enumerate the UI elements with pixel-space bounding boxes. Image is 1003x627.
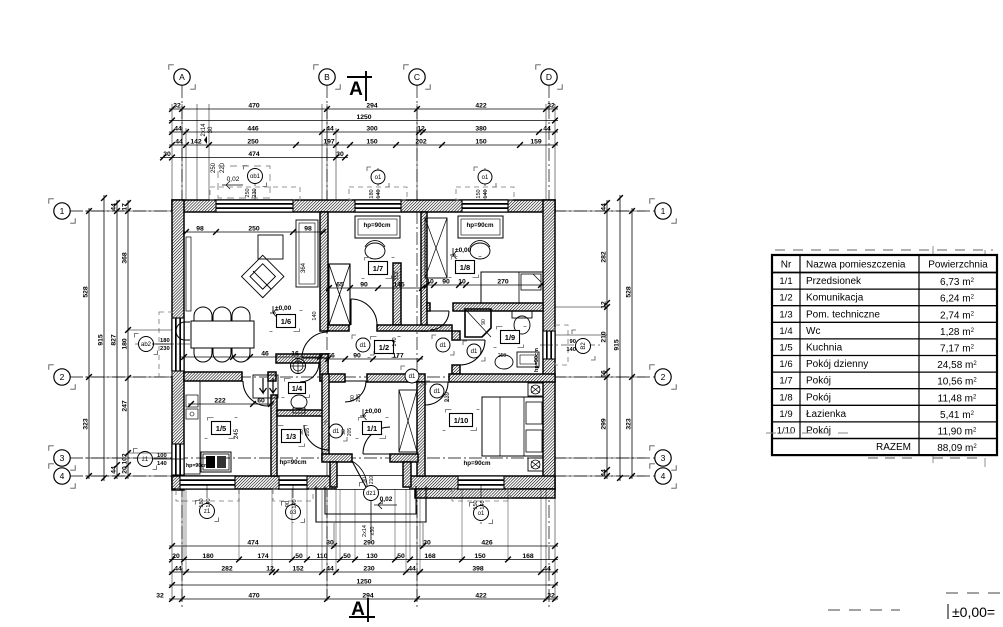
wardrobe X room 1/8 — [425, 218, 447, 278]
svg-text:1/2: 1/2 — [379, 343, 389, 352]
svg-text:Powierzchnia: Powierzchnia — [928, 260, 988, 271]
door circle d1 hall entry — [325, 421, 329, 425]
door arc entrance — [363, 427, 390, 454]
svg-text:d1: d1 — [409, 374, 416, 380]
fridge niche arrows — [253, 375, 278, 398]
door circle d1 corridor2 — [432, 335, 436, 339]
svg-text:44: 44 — [408, 565, 416, 572]
svg-text:1/4: 1/4 — [779, 326, 792, 337]
svg-text:hp=90cm: hp=90cm — [364, 222, 391, 229]
right dim chain x607 — [606, 200, 608, 479]
svg-text:140: 140 — [292, 499, 298, 508]
dim 46-16-66-90-177 middle — [181, 356, 323, 358]
svg-text:205: 205 — [347, 428, 353, 437]
svg-text:Wc: Wc — [806, 326, 820, 337]
door arc bedroom 1/10 — [425, 382, 448, 405]
svg-text:140: 140 — [480, 500, 486, 509]
level text plusminus 0,00 — [947, 604, 949, 619]
svg-text:x30: x30 — [370, 527, 376, 536]
lintel dashes below bottom windows — [176, 489, 239, 501]
wall kitchen|1/3 — [271, 395, 277, 476]
svg-text:168: 168 — [522, 553, 534, 560]
bottom dim chain row 2 — [169, 559, 558, 561]
svg-text:o1: o1 — [375, 175, 382, 181]
door arc hall from corridor — [345, 381, 366, 402]
toilet 1/9 — [512, 311, 532, 318]
window z1 left bottom — [172, 444, 184, 475]
svg-text:Nr: Nr — [781, 260, 792, 271]
room label 1/8 — [452, 257, 458, 260]
door circle d1 bedroom — [426, 381, 430, 385]
svg-text:60: 60 — [257, 397, 265, 404]
window B2 right — [543, 331, 555, 359]
stair direction arrow — [370, 492, 372, 540]
svg-text:17: 17 — [122, 203, 129, 211]
bottom dim chain row 4 — [169, 584, 558, 586]
radiator living left — [186, 237, 191, 311]
svg-text:B: B — [324, 72, 330, 82]
svg-text:426: 426 — [481, 539, 493, 546]
svg-text:44: 44 — [111, 466, 118, 474]
svg-text:250: 250 — [211, 162, 217, 173]
window marker o3 bottom — [292, 485, 294, 523]
left dim chain x117 — [116, 200, 118, 479]
svg-text:205: 205 — [305, 428, 311, 437]
svg-text:915: 915 — [614, 339, 621, 351]
axis marker 2 right — [650, 365, 655, 370]
wall 1/3|hall V — [322, 374, 329, 460]
washbasin 1/9 — [495, 355, 513, 369]
wardrobe X hall — [399, 390, 417, 452]
site dashed line bottom middle — [828, 609, 900, 611]
svg-text:474: 474 — [248, 151, 260, 158]
bed room 1/8 — [481, 272, 543, 303]
bottom dim chain row 1 — [169, 545, 558, 547]
door arc room 1/7 — [351, 299, 377, 325]
svg-text:90: 90 — [442, 278, 450, 285]
axis marker 4 left — [49, 464, 54, 469]
svg-text:12: 12 — [266, 565, 274, 572]
svg-text:180: 180 — [202, 553, 214, 560]
svg-text:hp=90cm: hp=90cm — [467, 222, 494, 229]
svg-text:30: 30 — [423, 539, 431, 546]
chair room 1/8 — [470, 243, 490, 259]
svg-text:66: 66 — [327, 352, 335, 359]
site dashed line right — [946, 592, 1003, 594]
svg-text:0,02: 0,02 — [380, 496, 393, 503]
svg-text:177: 177 — [392, 352, 404, 359]
svg-text:1/7: 1/7 — [373, 264, 383, 273]
svg-text:Przedsionek: Przedsionek — [806, 276, 862, 287]
window marker o1 bottom — [480, 485, 482, 524]
dashed opening outline above ob1 — [218, 166, 270, 198]
left dim chain x89 — [88, 208, 90, 479]
svg-text:C: C — [414, 72, 420, 82]
svg-text:4: 4 — [60, 471, 65, 481]
svg-text:140: 140 — [157, 461, 167, 467]
axis marker 3 right — [650, 446, 655, 451]
svg-text:Pokój: Pokój — [806, 392, 831, 403]
axis marker B — [314, 65, 319, 70]
axis line 4 — [70, 475, 672, 477]
svg-text:66: 66 — [601, 370, 608, 378]
svg-text:10: 10 — [426, 278, 434, 285]
room label 1/10 — [446, 410, 452, 413]
window o3 bottom — [279, 476, 307, 489]
axis marker D — [536, 65, 541, 70]
entrance opening bottom — [337, 476, 409, 489]
svg-text:474: 474 — [247, 539, 259, 546]
axis marker 2 left — [49, 365, 54, 370]
door arc kitchen — [243, 381, 268, 406]
svg-text:197: 197 — [323, 138, 335, 145]
porch step inner — [325, 486, 416, 514]
axis marker 1 left — [49, 199, 54, 204]
svg-text:270: 270 — [497, 278, 509, 285]
wall WC|corridor stub — [320, 354, 328, 381]
exterior wall bottom — [172, 476, 555, 489]
svg-text:4: 4 — [661, 471, 666, 481]
svg-text:3: 3 — [60, 453, 65, 463]
kitchen counter — [184, 381, 200, 474]
svg-text:174: 174 — [257, 553, 269, 560]
svg-text:65: 65 — [336, 281, 344, 288]
right dim chain x632 — [631, 208, 633, 479]
dimension chain top row 3 — [169, 131, 558, 133]
duct shaft room 1/7 — [393, 263, 401, 325]
svg-text:168: 168 — [424, 553, 436, 560]
svg-text:2: 2 — [661, 372, 666, 382]
svg-text:446: 446 — [247, 125, 259, 132]
room label 1/5 — [208, 418, 214, 421]
svg-text:300: 300 — [366, 125, 378, 132]
chairs bottom — [194, 348, 212, 362]
svg-text:1250: 1250 — [356, 578, 371, 585]
svg-text:250: 250 — [247, 138, 259, 145]
svg-text:130: 130 — [366, 553, 378, 560]
svg-text:230: 230 — [252, 188, 258, 197]
svg-text:528: 528 — [83, 286, 90, 298]
exterior wall left — [172, 200, 184, 490]
svg-text:hp=90cm: hp=90cm — [186, 463, 209, 469]
svg-text:422: 422 — [475, 102, 487, 109]
wall hall|bedroom V4 — [417, 382, 425, 476]
door circle d1 hall top — [401, 366, 405, 370]
dimension chain top row 1 — [169, 108, 558, 110]
WC toilet — [291, 395, 307, 409]
wall hall bottom / vestibule — [322, 454, 352, 462]
svg-text:90: 90 — [481, 319, 487, 325]
door circle d1 corridor — [352, 335, 356, 339]
svg-text:30: 30 — [336, 151, 344, 158]
cabinet 1/9 — [517, 352, 539, 367]
svg-text:30: 30 — [163, 151, 171, 158]
shelf wardrobe living — [296, 220, 318, 287]
window marker B2 right — [540, 344, 600, 346]
svg-text:D: D — [546, 72, 552, 82]
svg-text:222: 222 — [214, 397, 226, 404]
wardrobe X room 1/7 — [329, 264, 350, 325]
svg-text:Pokój dzienny: Pokój dzienny — [806, 359, 868, 370]
porch step outer — [316, 486, 426, 522]
kitchen appliance dark — [201, 452, 231, 472]
exterior wall top — [172, 200, 555, 212]
svg-text:1/7: 1/7 — [779, 376, 792, 387]
svg-text:Kuchnia: Kuchnia — [806, 343, 843, 354]
axis marker A — [169, 65, 174, 70]
svg-text:2: 2 — [60, 372, 65, 382]
svg-text:Nazwa pomieszczenia: Nazwa pomieszczenia — [806, 260, 906, 271]
room label 1/4 — [285, 379, 291, 382]
lintel dashes left/right windows — [159, 312, 172, 377]
ceiling point top bedroom — [528, 383, 543, 396]
axis line 1 — [70, 210, 672, 212]
svg-text:230: 230 — [363, 565, 375, 572]
window marker o1 (C-D) — [484, 168, 486, 205]
room label 1/9 — [497, 327, 503, 330]
svg-text:294: 294 — [366, 102, 378, 109]
dimension chain top row 5 — [160, 157, 348, 159]
bottom extension lines — [171, 489, 173, 601]
sofa square living — [258, 235, 283, 259]
svg-text:422: 422 — [475, 592, 487, 599]
window o1 top BC — [355, 200, 401, 212]
svg-text:140: 140 — [392, 337, 398, 346]
chairs top — [194, 307, 212, 321]
svg-text:44: 44 — [326, 565, 334, 572]
svg-text:ob1: ob1 — [250, 174, 261, 180]
svg-text:90: 90 — [570, 339, 576, 345]
exterior wall right — [543, 200, 555, 490]
window ob1 top — [216, 200, 293, 212]
svg-text:1/9: 1/9 — [779, 409, 792, 420]
svg-text:1/3: 1/3 — [286, 432, 296, 441]
svg-text:90: 90 — [285, 501, 291, 507]
svg-text:1250: 1250 — [356, 114, 371, 121]
shower 1/9 — [465, 309, 491, 337]
wall corridor|1/9 V3 — [452, 331, 460, 340]
svg-text:250: 250 — [245, 188, 251, 197]
left extension lines — [85, 210, 172, 212]
svg-text:247: 247 — [122, 400, 129, 412]
svg-text:20: 20 — [172, 553, 180, 560]
dim 222-60 kitchen — [188, 403, 274, 405]
svg-text:44: 44 — [601, 203, 608, 211]
svg-text:12: 12 — [417, 125, 425, 132]
bottom dim chain row 3 — [169, 571, 558, 573]
WC washbasin — [291, 359, 306, 374]
svg-text:205: 205 — [356, 394, 362, 403]
svg-text:46: 46 — [261, 350, 269, 357]
svg-text:11,90 m2: 11,90 m2 — [938, 427, 977, 438]
svg-text:470: 470 — [248, 592, 260, 599]
svg-text:915: 915 — [98, 334, 105, 346]
svg-text:32: 32 — [156, 592, 164, 599]
svg-text:1,28 m2: 1,28 m2 — [940, 327, 975, 338]
bed bedroom 1/10 — [482, 397, 543, 456]
wall WC top — [276, 354, 328, 363]
room label 1/6 — [273, 311, 279, 314]
door arc WC — [300, 363, 319, 382]
window z1 bottom kitchen — [180, 476, 235, 489]
room label 1/3 — [278, 426, 284, 429]
svg-text:239: 239 — [445, 391, 451, 402]
svg-text:142: 142 — [190, 138, 202, 145]
svg-text:1: 1 — [661, 206, 666, 216]
svg-text:32: 32 — [547, 592, 555, 599]
svg-text:hp=90cm: hp=90cm — [534, 348, 540, 372]
svg-text:1/6: 1/6 — [779, 359, 792, 370]
window marker ob1 — [254, 168, 256, 205]
svg-text:364: 364 — [301, 262, 307, 273]
svg-text:d1: d1 — [434, 389, 441, 395]
window ab2 left — [172, 318, 184, 371]
svg-text:d1: d1 — [471, 349, 478, 355]
svg-text:299: 299 — [601, 418, 608, 430]
wall 1/7|1/8 V2 — [421, 212, 427, 331]
svg-text:1/4: 1/4 — [292, 384, 303, 393]
window marker z1 left — [134, 449, 138, 453]
entrance door leaf — [352, 461, 367, 489]
svg-text:±0,00=: ±0,00= — [952, 604, 995, 620]
svg-text:11,48 m2: 11,48 m2 — [938, 393, 977, 404]
svg-text:±0,00: ±0,00 — [455, 247, 472, 254]
svg-text:150: 150 — [475, 138, 487, 145]
ceiling point bottom bedroom — [528, 458, 543, 471]
svg-text:90: 90 — [360, 281, 368, 288]
right dim chain x620 — [619, 195, 621, 481]
svg-text:98: 98 — [196, 225, 204, 232]
room label 1/1 — [359, 418, 365, 421]
svg-text:98: 98 — [304, 225, 312, 232]
svg-text:44: 44 — [601, 469, 608, 477]
bottom dim chain row 5 — [169, 598, 558, 600]
svg-text:2,74 m2: 2,74 m2 — [940, 310, 975, 321]
svg-text:180: 180 — [160, 338, 170, 344]
wall kitchen top — [184, 372, 242, 381]
axis marker 4 right — [650, 464, 655, 469]
table underlying dashed lines — [932, 246, 934, 470]
svg-text:88,09 m2: 88,09 m2 — [937, 443, 977, 454]
svg-text:44: 44 — [174, 125, 182, 132]
chair left — [176, 322, 190, 340]
svg-text:Komunikacja: Komunikacja — [806, 293, 864, 304]
room label 1/7 — [365, 258, 371, 261]
chair room 1/7 — [365, 243, 385, 259]
dim 270 room 1/8 — [424, 284, 544, 286]
svg-text:30: 30 — [208, 126, 214, 133]
svg-text:1/1: 1/1 — [779, 276, 792, 287]
svg-text:290: 290 — [363, 539, 375, 546]
svg-text:5,41 m2: 5,41 m2 — [940, 410, 975, 421]
wall 1/8|1/9 H2 — [427, 303, 430, 311]
axis line B — [326, 85, 328, 600]
dashes crossing table row 1/10 — [766, 432, 852, 434]
svg-text:dz1: dz1 — [366, 491, 376, 497]
svg-text:1/8: 1/8 — [779, 392, 792, 403]
axis line 3 — [70, 457, 672, 459]
window marker o1 (B-C) — [377, 168, 379, 205]
svg-text:o1: o1 — [482, 175, 489, 181]
svg-text:1: 1 — [60, 206, 65, 216]
svg-text:140: 140 — [312, 311, 318, 320]
svg-text:258: 258 — [498, 353, 507, 359]
door arc room 1/9 — [460, 340, 485, 365]
svg-text:32: 32 — [173, 102, 181, 109]
door arc room 1/3 — [304, 425, 329, 450]
svg-text:230: 230 — [160, 346, 170, 352]
svg-text:6,24 m2: 6,24 m2 — [940, 294, 975, 305]
svg-text:180: 180 — [369, 189, 375, 198]
svg-text:180: 180 — [199, 498, 205, 507]
svg-text:150: 150 — [473, 500, 479, 509]
wall living/corridor V1 — [320, 212, 328, 331]
svg-text:90: 90 — [353, 352, 361, 359]
svg-text:1/10: 1/10 — [777, 426, 796, 437]
svg-text:470: 470 — [248, 102, 260, 109]
svg-text:110: 110 — [317, 553, 328, 560]
svg-text:44: 44 — [543, 125, 551, 132]
svg-text:145: 145 — [393, 281, 405, 288]
svg-text:352: 352 — [394, 271, 400, 280]
svg-text:30: 30 — [326, 539, 334, 546]
dim 65-90-145 corridor top — [326, 287, 425, 289]
exterior wall bottom sill bedroom — [415, 489, 555, 498]
svg-text:3: 3 — [661, 453, 666, 463]
svg-text:250: 250 — [248, 225, 260, 232]
svg-text:d1: d1 — [360, 343, 367, 349]
svg-text:380: 380 — [475, 125, 487, 132]
svg-text:90: 90 — [362, 477, 368, 483]
svg-text:20: 20 — [122, 466, 129, 474]
window o1 bottom bedroom — [458, 476, 504, 489]
svg-text:140: 140 — [483, 189, 489, 198]
axis marker 1 right — [650, 199, 655, 204]
window sill box 1/7 — [355, 216, 400, 238]
svg-text:12: 12 — [601, 301, 608, 309]
svg-text:102: 102 — [122, 453, 129, 465]
svg-text:±0,00: ±0,00 — [275, 305, 292, 312]
left dim chain x104 — [103, 195, 105, 481]
armchair diamond living — [241, 255, 283, 297]
wall corridor top H1 — [328, 325, 349, 331]
svg-text:hp=90cm: hp=90cm — [280, 459, 307, 466]
svg-text:220: 220 — [220, 162, 226, 173]
svg-text:o1: o1 — [478, 511, 485, 517]
lintel dashes over top windows — [210, 187, 300, 200]
svg-text:323: 323 — [626, 418, 633, 430]
svg-text:±0,00: ±0,00 — [365, 408, 382, 415]
axis line C — [416, 85, 418, 610]
svg-text:44: 44 — [111, 203, 118, 211]
extension lines top — [171, 104, 173, 200]
svg-text:10: 10 — [458, 278, 466, 285]
svg-text:7,17 m2: 7,17 m2 — [940, 344, 975, 355]
svg-text:180: 180 — [122, 338, 129, 350]
svg-text:368: 368 — [122, 252, 129, 264]
wall hall top / bedroom top — [328, 374, 345, 382]
axis line D — [548, 85, 550, 610]
dining table — [191, 321, 254, 348]
svg-text:294: 294 — [362, 592, 374, 599]
svg-text:44: 44 — [174, 565, 182, 572]
svg-text:398: 398 — [472, 565, 484, 572]
axis marker C — [404, 65, 409, 70]
svg-text:2x14: 2x14 — [362, 525, 368, 537]
svg-text:1/1: 1/1 — [367, 424, 377, 433]
door arc room 1/8 — [430, 311, 449, 330]
svg-text:6,73 m2: 6,73 m2 — [940, 277, 975, 288]
